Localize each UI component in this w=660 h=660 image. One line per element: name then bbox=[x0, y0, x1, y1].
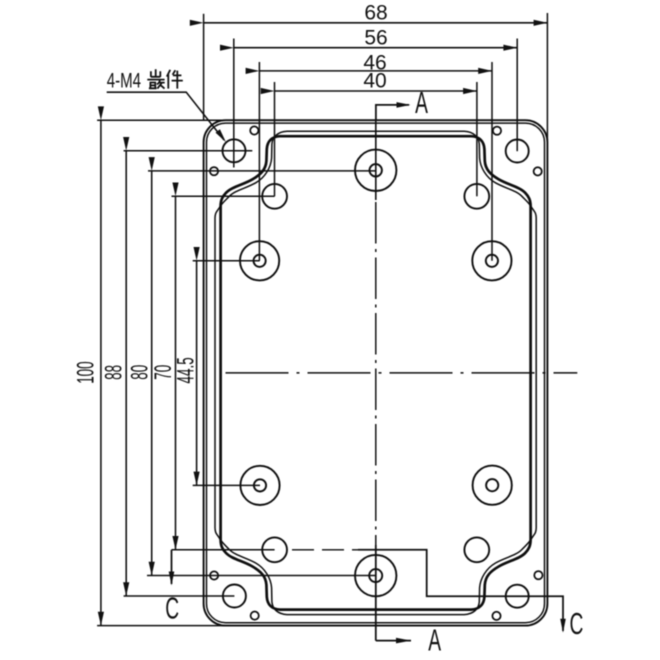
extension line 100 top bbox=[97, 119, 230, 121]
section C left arrowhead bbox=[169, 572, 175, 586]
flange hole right-lower bbox=[534, 571, 542, 579]
svg-text:A: A bbox=[415, 87, 428, 121]
section C dashed middle bbox=[292, 549, 358, 551]
svg-text:C: C bbox=[165, 592, 179, 626]
extension line 68 right bbox=[546, 13, 548, 140]
lid screw hole top-right bbox=[486, 255, 498, 267]
leader arrowhead bbox=[216, 129, 227, 142]
svg-text:4-M4: 4-M4 bbox=[107, 68, 141, 92]
svg-text:A: A bbox=[428, 624, 441, 658]
lid screw hole bottom-right bbox=[486, 479, 498, 491]
dimension line 100 bbox=[100, 120, 102, 625]
extension line 70 top bbox=[172, 195, 275, 197]
flange hole bottom-left bbox=[251, 612, 259, 620]
leader line 4-M4 bbox=[107, 92, 224, 140]
section A top arrowhead bbox=[397, 102, 411, 108]
corner M4 insert hole bottom-left bbox=[223, 585, 246, 608]
lid screw boss outer top-right bbox=[472, 241, 511, 280]
dimension line 68 bbox=[204, 22, 548, 24]
corner M4 insert hole top-right bbox=[506, 140, 529, 163]
centerline A vertical dash-dot bbox=[375, 202, 377, 545]
lid screw hole bottom-center bbox=[369, 569, 382, 582]
inner boss circle upper-left bbox=[262, 184, 287, 209]
extension line 80 top to center boss bbox=[148, 170, 376, 172]
svg-text:C: C bbox=[570, 608, 584, 642]
flange hole right-upper bbox=[534, 167, 542, 175]
extension line 40 right to inner boss center bbox=[476, 82, 478, 196]
extension line 56 right to M4 top-right center bbox=[516, 39, 518, 152]
lid screw boss outer bottom-right bbox=[473, 466, 512, 505]
lid screw boss outer top-center bbox=[355, 150, 396, 191]
corner M4 insert hole top-left bbox=[223, 139, 246, 162]
flange hole left-lower bbox=[210, 571, 218, 579]
gasket groove thick seal line bbox=[221, 136, 531, 609]
extension line 88 bottom to M4 center bbox=[124, 595, 235, 597]
inner boss circle lower-left bbox=[262, 537, 287, 562]
centerline A vertical solid lower bbox=[375, 545, 377, 641]
extension line 46 left to boss center bbox=[258, 62, 260, 261]
dimension line 88 bbox=[125, 151, 127, 596]
svg-text:68: 68 bbox=[364, 2, 387, 25]
extension line 44.5 top bbox=[193, 260, 260, 262]
section C stepped cut line bbox=[171, 550, 173, 584]
dimension line 46 bbox=[259, 70, 492, 72]
extension line 44.5 bottom bbox=[193, 484, 260, 486]
section A bottom arrow line bbox=[376, 640, 411, 642]
inner boss circle upper-right bbox=[464, 184, 489, 209]
svg-text:44.5: 44.5 bbox=[172, 357, 199, 383]
svg-text:40: 40 bbox=[363, 70, 386, 93]
flange hole left-upper bbox=[210, 167, 218, 175]
extension line 40 left to inner boss center bbox=[274, 82, 276, 196]
extension line 88 top through M4 center bbox=[124, 150, 253, 152]
enclosure lid rim inner line bbox=[207, 123, 545, 623]
lid screw boss outer bottom-center bbox=[355, 555, 396, 596]
flange hole top-right bbox=[493, 127, 501, 135]
svg-text:56: 56 bbox=[364, 27, 387, 50]
inner boss circle lower-right bbox=[464, 537, 489, 562]
dimension line 80 bbox=[151, 171, 153, 576]
lid screw boss outer bottom-left bbox=[240, 466, 279, 505]
lid screw boss outer top-left bbox=[240, 241, 279, 280]
horizontal centerline dash-dot bbox=[226, 372, 578, 374]
enclosure outer edge bbox=[204, 120, 548, 625]
extension line 46 right to boss center bbox=[491, 62, 493, 261]
dimension line 44.5 bbox=[196, 261, 198, 486]
section C right arrowhead bbox=[560, 619, 566, 633]
glyph qian bbox=[147, 69, 164, 88]
extension line 70 bottom bbox=[172, 549, 275, 551]
section A bottom arrowhead bbox=[396, 638, 411, 644]
centerline A vertical solid upper bbox=[375, 121, 377, 200]
lid screw hole top-center bbox=[370, 164, 382, 176]
glyph jian bbox=[167, 70, 183, 89]
extension line 100 bottom bbox=[97, 625, 230, 627]
gasket groove thin line bbox=[215, 131, 536, 614]
lid screw hole top-left bbox=[254, 255, 266, 267]
extension line 68 left bbox=[203, 14, 205, 121]
dimension line 56 bbox=[234, 47, 517, 49]
extension line 80 bottom to center boss bbox=[147, 575, 376, 577]
section A top vertical bbox=[376, 105, 409, 121]
dimension line 40 bbox=[275, 90, 477, 92]
dimension line 70 bbox=[175, 196, 177, 550]
extension line 56 left through M4 top-left bbox=[233, 39, 235, 168]
flange hole top-left bbox=[250, 126, 258, 134]
flange hole bottom-right bbox=[492, 612, 500, 620]
lid screw hole bottom-left bbox=[254, 479, 266, 491]
section C step solid bbox=[358, 550, 563, 631]
svg-text:88: 88 bbox=[101, 365, 128, 380]
svg-text:100: 100 bbox=[72, 361, 99, 384]
corner M4 insert hole bottom-right bbox=[506, 585, 529, 608]
